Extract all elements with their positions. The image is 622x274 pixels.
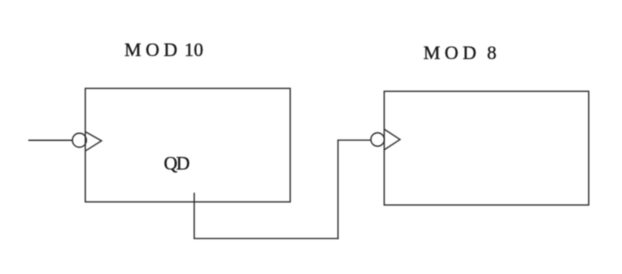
svg-text:10: 10 (184, 40, 203, 61)
svg-text:MOD: MOD (423, 43, 476, 64)
clock edge triangle on MOD 8 (384, 129, 400, 150)
wire segment QD output stub down from MOD 10 (193, 193, 195, 239)
clock edge triangle on MOD 10 (85, 132, 101, 151)
clock bubble on MOD 8 (371, 133, 384, 146)
wire segment vertical run up to clock level (337, 140, 339, 239)
wire segment bottom horizontal run (194, 238, 339, 240)
wire segment into MOD 8 clock bubble (337, 139, 371, 141)
clock bubble on MOD 10 (72, 133, 86, 147)
svg-text:QD: QD (164, 154, 190, 175)
svg-text:MOD: MOD (124, 40, 177, 61)
wire CLK input to MOD 10 (28, 139, 72, 141)
counter block MOD 8 (384, 91, 589, 205)
svg-text:8: 8 (487, 43, 497, 64)
counter block MOD 10 (85, 88, 290, 201)
